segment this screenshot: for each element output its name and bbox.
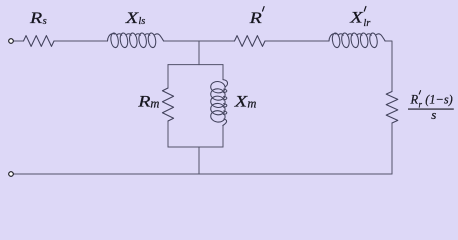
- wire box bottom bar: [168, 146, 223, 148]
- wire right: Rr to bottom corner: [391, 123, 393, 174]
- svg-text:X: X: [349, 10, 364, 27]
- svg-text:ls: ls: [138, 16, 145, 27]
- svg-text:s: s: [431, 107, 436, 122]
- svg-text:m: m: [150, 97, 159, 111]
- wire middle stub to bottom: [198, 147, 200, 174]
- svg-text:R: R: [137, 93, 151, 110]
- svg-text:lr: lr: [363, 18, 371, 29]
- wire top: Xls to R' through node: [164, 40, 235, 42]
- resistor Rm: [162, 88, 173, 121]
- resistor Rs: [24, 36, 55, 47]
- wire left rail above Rm: [167, 65, 169, 88]
- svg-text:s: s: [43, 16, 47, 27]
- wire top: R' to X'lr: [265, 40, 329, 42]
- resistor R': [235, 36, 266, 47]
- inductor Xm: [211, 80, 228, 126]
- svg-text:R: R: [410, 92, 419, 106]
- wire top right: X'lr to corner, down to Rr: [385, 41, 392, 92]
- label Rs: [29, 10, 47, 27]
- wire bottom: [13, 173, 392, 175]
- wire middle: node down to box: [198, 41, 200, 65]
- svg-text:m: m: [247, 97, 256, 111]
- svg-text:(1−s): (1−s): [425, 92, 452, 106]
- label X'lr: [349, 7, 371, 29]
- label R'r(1-s)/s fraction: [408, 91, 454, 122]
- label Xm: [234, 93, 257, 110]
- wire right rail above Xm: [222, 65, 224, 80]
- label Rm: [137, 93, 159, 110]
- inductor X'lr: [329, 33, 385, 48]
- terminal bottom-left: [9, 172, 14, 177]
- svg-text:R: R: [29, 10, 43, 27]
- svg-text:R: R: [248, 10, 262, 27]
- resistor R'r(1-s)/s: [386, 92, 398, 124]
- svg-text:r: r: [419, 99, 423, 109]
- label R': [248, 7, 264, 27]
- wire top: Rs to Xls: [54, 40, 108, 42]
- wire left rail below Rm: [167, 121, 169, 147]
- inductor Xls: [108, 33, 164, 48]
- label Xls: [125, 10, 146, 27]
- wire box top bar: [168, 64, 223, 66]
- terminal top-left: [9, 39, 14, 44]
- wire right rail below Xm: [222, 126, 224, 148]
- wire top: terminal to Rs: [13, 40, 23, 42]
